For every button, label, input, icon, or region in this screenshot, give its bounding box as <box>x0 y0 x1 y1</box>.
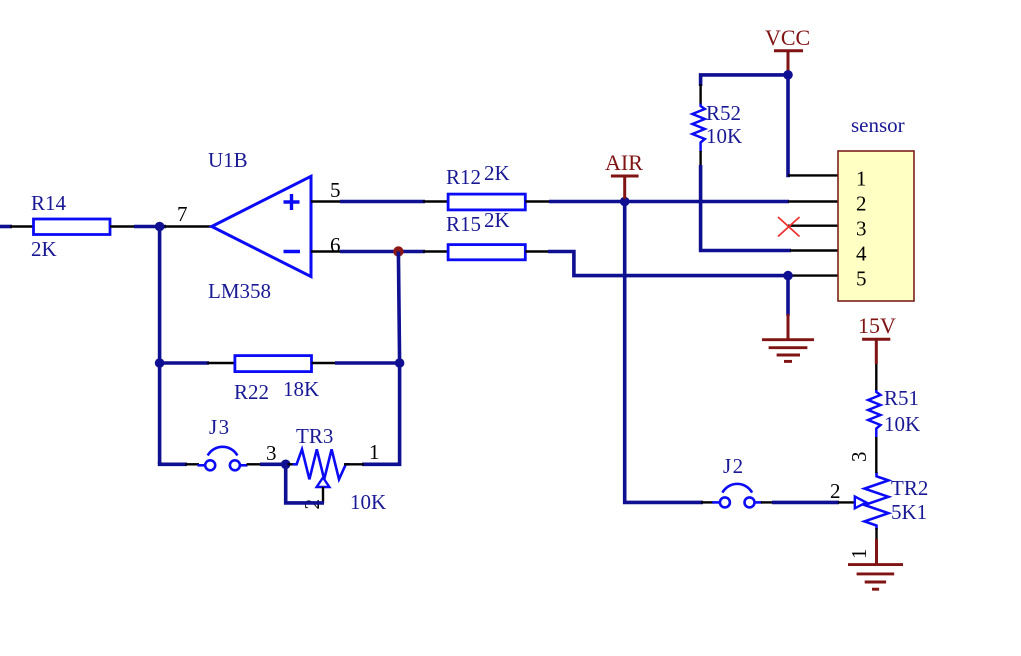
wire: R14 to node <box>134 225 166 229</box>
svg-text:1: 1 <box>856 167 867 191</box>
op-amp plus sign <box>284 194 300 210</box>
svg-text:sensor: sensor <box>851 113 905 137</box>
wire: J3 left pin lead <box>185 463 199 465</box>
wire: pin5 to R12 <box>340 200 425 204</box>
svg-text:LM358: LM358 <box>208 279 271 303</box>
power port AIR bar <box>611 175 639 178</box>
wire: R15 to sensor pin5 (down and right) <box>548 252 789 276</box>
wire: left vertical to J3 <box>160 462 187 464</box>
op-amp minus sign <box>284 250 301 253</box>
op-amp U1B triangle <box>212 176 311 276</box>
svg-text:6: 6 <box>330 233 341 257</box>
svg-text:1: 1 <box>369 440 380 464</box>
svg-text:10K: 10K <box>706 124 742 148</box>
wire: input net to R14 <box>0 225 12 229</box>
wire: R15 right pin lead <box>525 250 549 252</box>
svg-text:R52: R52 <box>706 101 741 125</box>
svg-text:5K1: 5K1 <box>891 500 927 524</box>
wire: sensor pin1 stub <box>788 174 838 176</box>
node: AIR junction <box>620 197 630 207</box>
svg-text:2K: 2K <box>484 208 510 232</box>
wire: VCC node to R52 top <box>701 75 789 86</box>
wire: sensor pin4 stub <box>790 249 838 251</box>
svg-text:TR3: TR3 <box>296 424 333 448</box>
node: junction at op-amp output <box>155 222 165 232</box>
wire: R15 left pin lead <box>423 250 449 252</box>
svg-text:10K: 10K <box>884 412 920 436</box>
wire: R22 left pin lead <box>207 362 236 364</box>
wire: TR3 wiper loop to pin3 node <box>286 462 324 503</box>
wire: TR3 wiper pin lead <box>322 487 324 503</box>
svg-text:R12: R12 <box>446 165 481 189</box>
wire: R12 to sensor pin2 (through AIR node) <box>549 200 789 204</box>
wire: R12 right pin lead <box>525 200 551 202</box>
wire: node to R22 <box>160 361 209 365</box>
svg-text:4: 4 <box>856 242 867 266</box>
wire: TR3 pin3 lead <box>286 463 298 465</box>
svg-text:2K: 2K <box>31 237 57 261</box>
potentiometer TR2 zigzag <box>865 472 889 530</box>
svg-text:15V: 15V <box>858 313 896 338</box>
resistor R51 zigzag <box>868 389 880 437</box>
wire: op-amp pin6 lead <box>311 250 342 252</box>
svg-text:R14: R14 <box>31 191 67 215</box>
wire: op-amp output pin lead <box>164 225 212 227</box>
ground stem under TR2 <box>875 539 878 565</box>
resistor R52 zigzag <box>692 104 704 153</box>
svg-text:R15: R15 <box>446 212 481 236</box>
wire: J3 right pin lead <box>247 463 263 465</box>
potentiometer TR2 wiper arrow <box>855 497 866 509</box>
wire: AIR node down to J2 <box>625 199 703 502</box>
svg-text:5: 5 <box>330 178 341 202</box>
wire: R14 left pin lead <box>10 225 34 227</box>
svg-text:3: 3 <box>266 441 277 465</box>
node: TR3 pin3 junction <box>281 460 291 470</box>
wire: sensor pin5 stub <box>788 274 838 276</box>
resistor R14 <box>34 219 111 235</box>
ground symbol under TR2 <box>848 565 903 590</box>
svg-text:J3: J3 <box>209 415 231 439</box>
wire: 15V to R51 black lead <box>875 362 877 390</box>
node: R22 left junction <box>155 358 165 368</box>
no-connect X on sensor pin3 <box>778 217 800 237</box>
power port VCC stem <box>787 51 790 76</box>
potentiometer TR3 wiper arrow <box>317 478 330 488</box>
wire: pin6 to R15 <box>340 250 425 254</box>
wire: J2 left pin lead <box>701 501 714 503</box>
svg-text:10K: 10K <box>350 490 386 514</box>
wire: feedback vertical (pin6 node to TR3 pin1) <box>362 252 400 465</box>
svg-text:2: 2 <box>830 479 841 503</box>
wire: R22 right pin lead <box>312 362 338 364</box>
ground stem under sensor <box>787 314 790 340</box>
svg-text:3: 3 <box>856 217 867 241</box>
wire: TR3 pin1 lead <box>344 463 364 465</box>
wire: TR2 pin1 lead <box>875 528 877 541</box>
node: feedback junction (dark red) <box>393 246 403 256</box>
wire: sensor pin2 stub <box>788 200 838 202</box>
svg-text:U1B: U1B <box>208 148 248 172</box>
jumper J2 <box>712 484 762 508</box>
svg-text:1: 1 <box>847 549 871 560</box>
wire: J2 right pin lead <box>761 501 774 503</box>
svg-text:2K: 2K <box>484 161 510 185</box>
wire: J3 to TR3 node <box>260 462 287 466</box>
svg-text:7: 7 <box>177 202 188 226</box>
svg-text:AIR: AIR <box>605 150 643 175</box>
wire: R22 to right vertical <box>335 361 400 365</box>
resistor R22 <box>235 356 312 372</box>
node: sensor pin5 junction <box>783 271 793 281</box>
svg-text:3: 3 <box>847 452 871 463</box>
wire: R12 left pin lead <box>423 200 449 202</box>
wire: R14 right pin lead <box>110 225 136 227</box>
power port 15V bar <box>862 338 890 341</box>
wire: R52 to sensor pin4 <box>701 165 791 251</box>
potentiometer TR3 zigzag <box>293 449 350 479</box>
wire: TR2 wiper pin lead <box>838 501 856 503</box>
svg-text:J2: J2 <box>723 454 745 478</box>
svg-text:R22: R22 <box>234 380 269 404</box>
power port VCC bar <box>774 49 803 52</box>
connector sensor box <box>838 151 914 301</box>
resistor R15 <box>448 245 525 260</box>
wire: op-amp output node down <box>158 227 162 465</box>
wire: VCC node down to sensor pin1 <box>788 76 790 175</box>
ground symbol under sensor <box>762 340 814 362</box>
jumper J3 <box>198 447 248 471</box>
wire: J2 to TR2 wiper <box>772 501 839 505</box>
resistor R12 <box>448 194 525 210</box>
svg-text:VCC: VCC <box>765 25 810 50</box>
wire: R52 bottom pin lead <box>699 151 701 167</box>
power port AIR stem <box>623 176 626 199</box>
wire: TR2 pin3 to R51 (black leads) <box>875 436 877 473</box>
wire: sensor pin3 stub <box>788 224 838 226</box>
node: VCC junction <box>783 70 793 80</box>
wire: sensor pin5 node down <box>786 276 790 316</box>
svg-text:TR2: TR2 <box>891 476 928 500</box>
svg-text:5: 5 <box>856 267 867 291</box>
node: R22 right junction <box>395 358 405 368</box>
svg-text:2: 2 <box>856 192 867 216</box>
wire: op-amp pin5 lead <box>311 200 342 202</box>
power port 15V stem <box>875 339 878 364</box>
svg-text:R51: R51 <box>884 386 919 410</box>
wire: R52 top pin lead <box>699 84 701 105</box>
svg-text:18K: 18K <box>283 377 319 401</box>
